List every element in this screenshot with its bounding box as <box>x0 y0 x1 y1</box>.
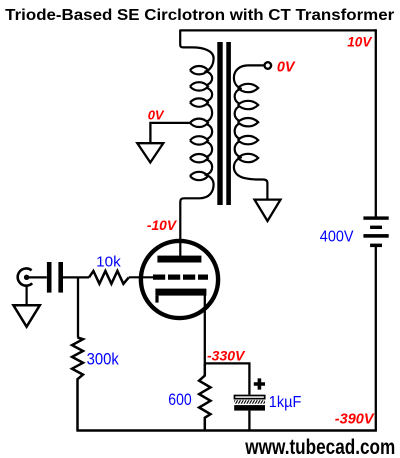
battery B1 400V <box>363 216 388 247</box>
wire cathode lead <box>204 294 206 365</box>
wire grid node down to 300k <box>77 277 79 337</box>
triode V1 cathode <box>155 289 206 303</box>
wire right side upper to battery + <box>375 29 377 216</box>
resistor R2 300k <box>72 338 83 431</box>
svg-text:10k: 10k <box>96 254 121 270</box>
capacitor C2 bottom plate <box>234 405 265 411</box>
svg-text:-10V: -10V <box>147 218 178 233</box>
capacitor C2 top plate <box>235 396 265 399</box>
capacitor C2 plus sign <box>254 378 265 389</box>
wire cap to bottom rail <box>248 411 250 431</box>
input jack J1 <box>18 268 33 285</box>
svg-text:0V: 0V <box>148 107 165 122</box>
triode V1 envelope <box>141 241 218 318</box>
ground (secondary) <box>255 200 281 221</box>
ground (input) <box>13 305 39 326</box>
transformer T1 primary winding <box>180 30 213 258</box>
svg-text:1kµF: 1kµF <box>269 394 302 411</box>
svg-text:400V: 400V <box>320 228 354 245</box>
svg-text:10V: 10V <box>347 35 372 50</box>
capacitor C2 hatch band <box>234 400 265 404</box>
transformer T1 secondary winding <box>234 65 268 199</box>
triode V1 plate <box>157 256 201 263</box>
svg-text:-390V: -390V <box>335 412 375 428</box>
output terminal (0V) <box>265 62 272 69</box>
svg-text:600: 600 <box>168 390 191 409</box>
transformer T1 core <box>217 42 231 205</box>
svg-text:300k: 300k <box>87 350 120 368</box>
resistor R1 10k <box>89 271 129 284</box>
svg-text:Triode-Based SE Circlotron wit: Triode-Based SE Circlotron with CT Trans… <box>5 7 394 24</box>
wire top rail <box>180 29 376 31</box>
wire bottom rail <box>76 429 377 432</box>
ground (center tap) <box>137 143 163 162</box>
svg-text:-330V: -330V <box>207 348 246 364</box>
wire jack to coupling cap <box>27 276 47 278</box>
wire jack to ground <box>26 286 28 305</box>
wire cap to grid node <box>63 276 89 278</box>
svg-text:0V: 0V <box>277 60 296 76</box>
wire cathode node to cap branch <box>205 363 250 394</box>
wire primary center tap <box>150 123 190 143</box>
wire grid lead <box>129 276 153 278</box>
svg-text:www.tubecad.com: www.tubecad.com <box>244 436 395 458</box>
coupling capacitor C1 <box>47 262 63 293</box>
wire right side lower battery - to bottom rail <box>375 247 377 431</box>
triode V1 grid dashes <box>153 274 208 279</box>
resistor R3 600 <box>199 364 210 431</box>
